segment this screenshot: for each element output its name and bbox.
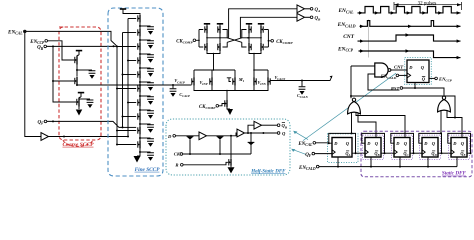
- svg-text:VINP: VINP: [200, 80, 208, 86]
- svg-text:ENCCP: ENCCP: [29, 40, 45, 45]
- ground reset: [230, 166, 232, 167]
- svg-text:Q: Q: [282, 131, 286, 136]
- dotted highlight FF3: [392, 135, 413, 159]
- label Coarse SCCP: [63, 140, 93, 146]
- wire FF1 clock stub: [337, 157, 339, 167]
- keeper transistor T3: [250, 133, 252, 154]
- transistor input INN: [253, 77, 255, 86]
- transistor coarse M_B: [76, 70, 78, 76]
- wire comparator left node: [207, 37, 229, 39]
- capacitor fine C9: [140, 137, 151, 139]
- flip-flop FF2 box: [365, 138, 381, 158]
- transistor fine M7: [139, 98, 141, 106]
- flip-flop FF5 box: [451, 138, 467, 158]
- transistor fine M2: [139, 28, 141, 36]
- svg-text:Fine SCCP: Fine SCCP: [135, 167, 161, 173]
- wire Q_F chain to CK: [315, 153, 332, 155]
- svg-text:R: R: [175, 163, 178, 168]
- wire fine gate rail C: [127, 19, 129, 137]
- wire input pair sources: [194, 86, 268, 91]
- wire comparator col1 node: [206, 34, 208, 43]
- timing marks EN_CAL: [359, 11, 363, 14]
- wire R bus: [183, 162, 228, 165]
- supply VDD coarse cell 2: [78, 92, 84, 94]
- wire FF3 feedback loop: [391, 133, 414, 153]
- wire EN_CAL chain to D: [316, 142, 329, 144]
- wire FF2 Qbar to FF3 clock: [385, 152, 395, 154]
- wire fine gate rail B: [122, 33, 124, 128]
- transistor comparator N3: [248, 43, 250, 51]
- svg-text:M1: M1: [238, 77, 245, 83]
- svg-text:QB: QB: [315, 16, 321, 21]
- transistor M_1 middle: [234, 77, 236, 86]
- wire buffer output: [49, 136, 129, 138]
- node coarse output: [76, 84, 78, 87]
- wire EN_CAL left rail down to buffer: [25, 33, 41, 137]
- supply VDD comparator col3: [246, 23, 252, 25]
- capacitor fine C7: [140, 109, 151, 111]
- svg-text:CKCOMP: CKCOMP: [276, 40, 293, 45]
- svg-text:ENCALD: ENCALD: [337, 22, 356, 28]
- wire NOR1 input 3: [356, 112, 405, 138]
- transistor fine M3: [139, 42, 141, 50]
- wire FF4 feedback loop: [419, 133, 442, 153]
- wire NAND lower input: [368, 74, 400, 90]
- wire comparator NMOS sources: [207, 51, 220, 70]
- wire input pair drains left: [194, 70, 235, 77]
- wire FF3 Qbar to FF4 clock: [414, 152, 423, 154]
- svg-text:ENCCP: ENCCP: [337, 46, 354, 52]
- annotation arrow to Qbar: [296, 132, 309, 139]
- buffer clock driver: [41, 133, 49, 141]
- wire FF5 feedback loop: [448, 133, 471, 153]
- capacitor fine C6: [140, 95, 151, 97]
- svg-text:CCALP: CCALP: [179, 92, 190, 98]
- wire comparator col3 node: [248, 34, 250, 43]
- capacitor C_CALP: [172, 85, 174, 88]
- transistor comparator N4: [260, 43, 262, 51]
- transistor fine M6: [139, 84, 141, 92]
- wire Q to I3 branch: [248, 125, 254, 133]
- transistor input CALP: [193, 77, 195, 86]
- transistor fine M10: [139, 140, 141, 148]
- wire T2 to I2: [229, 133, 237, 136]
- pass transistor T1: [187, 137, 194, 140]
- annotation 32 pulses arrow: [394, 4, 462, 6]
- supply VDD comparator col1: [204, 23, 210, 25]
- svg-text:ENCAL: ENCAL: [297, 142, 313, 147]
- transistor comparator N2: [219, 43, 221, 51]
- wire comparator col4 node: [260, 34, 262, 43]
- transistor fine M9: [139, 126, 141, 134]
- capacitor fine C8: [140, 123, 151, 125]
- capacitor fine C3: [140, 53, 151, 55]
- wire EN_CALD bus: [319, 166, 457, 168]
- wire RST bus B: [351, 96, 462, 118]
- svg-text:QB: QB: [282, 123, 288, 129]
- wire NOR1 input 2: [358, 113, 376, 138]
- ground fine: [137, 152, 140, 156]
- gate NOR2: [442, 96, 445, 99]
- timing waveform CNT: [358, 35, 461, 41]
- timing marks EN_CALD: [360, 25, 364, 28]
- supply VDD fine: [120, 8, 126, 10]
- pass transistor T2: [217, 137, 224, 140]
- dotted highlight FF5: [449, 135, 470, 159]
- annotation arrow to Q: [294, 150, 307, 155]
- wire CK_COMP left rail: [196, 30, 204, 48]
- wire comparator output A to buffer: [229, 9, 297, 38]
- supply VDD coarse cell 1: [76, 50, 82, 52]
- transistor input INP: [211, 77, 213, 86]
- wire comparator right node: [240, 37, 261, 39]
- svg-text:ENCALD: ENCALD: [380, 75, 397, 80]
- transistor reset pulldown: [230, 159, 232, 166]
- wire comparator gate rail left inner: [223, 30, 228, 48]
- svg-text:CNT: CNT: [343, 34, 354, 40]
- dashed box Fine SCCP: [108, 8, 163, 176]
- flip-flop U2 box: [405, 58, 432, 85]
- transistor fine M5: [139, 70, 141, 78]
- svg-text:Coarse SCCP: Coarse SCCP: [62, 142, 94, 148]
- label CNT output: [391, 69, 407, 71]
- capacitor fine C5: [140, 81, 151, 83]
- timing waveform EN_CALD: [360, 21, 461, 27]
- wire FF4 clock stub: [427, 157, 429, 167]
- dashed box Half-Static DFF: [166, 119, 290, 175]
- svg-text:ENCAL: ENCAL: [337, 8, 354, 14]
- gate NAND U1: [375, 63, 388, 77]
- wire storage node down: [230, 136, 232, 159]
- flip-flop FF4 box: [422, 138, 438, 158]
- svg-text:CKCOMP: CKCOMP: [176, 39, 193, 44]
- wire fine gate rail A: [116, 46, 118, 144]
- wire comparator gate rail right inner: [242, 30, 247, 48]
- wire FF2 clock stub: [370, 157, 372, 167]
- ground comparator tail: [227, 107, 230, 109]
- supply VDD comparator col2: [217, 23, 223, 25]
- node V_CALN: [271, 77, 332, 81]
- wire NOR1 input 1: [351, 113, 353, 134]
- wire NOR2 input 2: [447, 111, 462, 138]
- transistor coarse M_C: [78, 98, 80, 107]
- wire Qbar output: [262, 124, 278, 126]
- svg-text:VINN: VINN: [258, 80, 267, 86]
- transistor input CALN: [267, 77, 269, 86]
- cross coupling wires: [227, 38, 242, 43]
- transistor tail clock: [226, 91, 228, 100]
- transistor fine M4: [139, 56, 141, 64]
- wire FF3 clock stub: [399, 157, 401, 167]
- wire Qbar to EN_CCP: [429, 77, 435, 79]
- wire FF5 clock stub: [456, 157, 458, 167]
- svg-text:QB: QB: [37, 46, 44, 51]
- capacitor fine C2: [140, 39, 151, 41]
- wire input pair drains right: [254, 70, 268, 77]
- wire FF2 feedback loop: [362, 133, 385, 153]
- wire FF1 feedback loop: [329, 133, 356, 153]
- timing waveform EN_CAL: [358, 7, 461, 13]
- transistor coarse M_A: [76, 56, 78, 65]
- transistor comparator P1: [206, 24, 208, 25]
- svg-text:CKCOMP: CKCOMP: [199, 105, 216, 110]
- capacitor fine C1: [140, 25, 151, 27]
- wire Q_F to Fine SCCP: [47, 121, 123, 127]
- timing marks CNT: [360, 39, 364, 42]
- flip-flop FF1 box: [332, 138, 352, 158]
- dashed box Coarse SCCP: [59, 27, 101, 140]
- svg-text:RST: RST: [391, 86, 400, 91]
- svg-text:ENCALD: ENCALD: [298, 166, 316, 171]
- capacitor fine C10: [140, 151, 151, 153]
- timing guide line: [368, 20, 370, 58]
- capacitor C_CALN: [301, 81, 303, 87]
- inverter I3: [254, 121, 262, 129]
- svg-text:Static DFF: Static DFF: [442, 171, 467, 177]
- timing marks EN_CCP: [360, 49, 364, 52]
- transistor comparator P4: [260, 24, 262, 25]
- wire D input: [176, 135, 200, 137]
- svg-text:VCALP: VCALP: [174, 78, 185, 84]
- transistor comparator P3: [248, 24, 250, 25]
- transistor comparator P2: [219, 24, 221, 25]
- flip-flop FF3 box: [394, 138, 410, 158]
- svg-text:CNT: CNT: [394, 64, 403, 69]
- svg-text:QF: QF: [37, 121, 44, 126]
- wire FF1 Qbar to FF2 clock: [356, 152, 366, 154]
- wire EN_CAL: [26, 31, 117, 46]
- annotation line EN_CALD link: [303, 73, 396, 140]
- svg-text:Half-Static DFF: Half-Static DFF: [250, 170, 286, 175]
- wire comparator output B to buffer: [240, 17, 297, 38]
- inverter I1: [199, 132, 207, 140]
- terminal CK_COMP right: [271, 40, 274, 43]
- svg-text:VCALN: VCALN: [275, 75, 287, 81]
- transistor fine M1: [139, 14, 141, 22]
- dotted highlight FF2: [363, 135, 384, 159]
- transistor comparator N1: [206, 43, 208, 51]
- dotted highlight FF1: [328, 134, 359, 163]
- wire comparator col2 node: [219, 34, 221, 43]
- wire NOR1 output to NAND: [351, 66, 375, 98]
- capacitor coarse C_C: [79, 98, 90, 100]
- supply VDD comparator col4: [258, 23, 264, 25]
- wire EN_CCP to gate: [48, 41, 75, 60]
- svg-text:QA: QA: [315, 8, 321, 13]
- wire RST net: [403, 88, 444, 96]
- wire FF4 Qbar to FF5 clock: [442, 152, 452, 154]
- gate NOR1: [352, 98, 355, 101]
- wire CK_COMP tail gate: [219, 104, 225, 106]
- wire I1 out: [207, 135, 230, 137]
- svg-text:ENCAL: ENCAL: [7, 29, 23, 35]
- dashed box Static DFF: [361, 131, 472, 177]
- wire Q output: [245, 132, 278, 134]
- buffer output Q_B: [297, 13, 305, 21]
- buffer output Q_A: [297, 5, 305, 13]
- svg-text:D: D: [167, 134, 172, 139]
- wire NOR2 input 1: [440, 111, 442, 134]
- dotted highlight FF4: [420, 135, 441, 159]
- svg-text:CCALN: CCALN: [297, 93, 309, 99]
- wire CK bus: [183, 153, 251, 155]
- wire CK_COMP right rail: [264, 30, 271, 48]
- capacitor fine C4: [140, 67, 151, 69]
- timing waveform EN_CCP: [359, 51, 461, 58]
- wire Q_B to gates: [47, 46, 118, 102]
- capacitor coarse C_A: [77, 69, 92, 71]
- svg-text:32 pulses: 32 pulses: [418, 1, 437, 6]
- svg-text:QF: QF: [305, 153, 312, 158]
- ground coarse: [76, 110, 83, 116]
- transistor fine M8: [139, 112, 141, 120]
- inverter I2: [237, 129, 245, 137]
- svg-text:ENCCP: ENCCP: [438, 76, 453, 82]
- wire coarse output to V_CALP: [77, 84, 192, 86]
